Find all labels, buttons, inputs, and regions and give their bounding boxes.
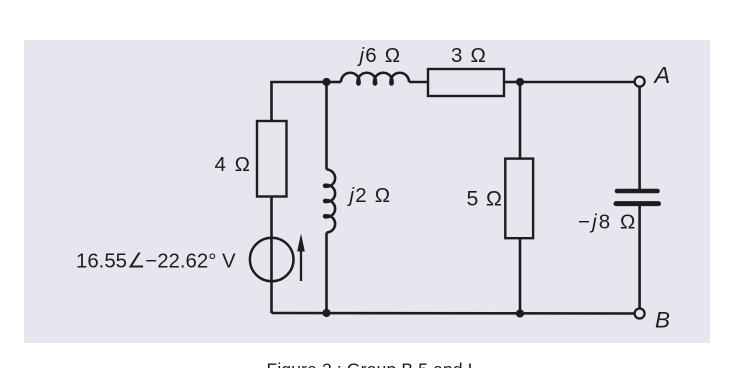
node 4 junction dot (bottom of 5 ohm branch) [516, 309, 524, 317]
svg-text:16.55∠−22.62° V: 16.55∠−22.62° V [76, 251, 236, 273]
capacitor C1 -j8 ohm plates [616, 191, 659, 204]
current arrow of source VS [297, 234, 305, 282]
terminal B circle [635, 309, 645, 319]
wire j2 branch lower [325, 233, 328, 314]
svg-text:j2 Ω: j2 Ω [347, 184, 392, 207]
svg-text:Figure 2 : Group B.5 and L: Figure 2 : Group B.5 and L [267, 360, 478, 368]
wire capacitor C1 to terminal B [638, 206, 641, 309]
resistor R3 5 ohm [505, 159, 533, 239]
inductor L1 j6 ohm [341, 73, 409, 85]
node 3 junction dot (bottom of j2 branch) [322, 309, 330, 317]
wire 5 ohm branch lower [519, 238, 522, 313]
svg-text:5 Ω: 5 Ω [467, 186, 503, 210]
terminal A circle [635, 77, 645, 87]
node 1 junction dot [322, 78, 330, 86]
wire node 2 to terminal A [520, 81, 635, 84]
wire j2 branch upper [325, 82, 328, 170]
wire between resistor R2 and node 2 [504, 81, 520, 84]
inductor L2 j2 ohm [324, 170, 335, 233]
wire terminal A to capacitor C1 [638, 87, 641, 189]
svg-text:j6 Ω: j6 Ω [357, 44, 402, 67]
node 2 junction dot [516, 78, 524, 86]
svg-text:3 Ω: 3 Ω [451, 44, 487, 67]
bottom rail wire [272, 312, 635, 315]
wire top-left horizontal and left vertical drop [272, 82, 327, 121]
wire 5 ohm branch upper [519, 82, 522, 159]
resistor R2 3 ohm [428, 69, 504, 96]
wire resistor R1 through source VS to bottom rail [270, 197, 273, 314]
svg-text:B: B [655, 308, 670, 333]
wire top between node 1 and inductor L1 [327, 81, 342, 84]
svg-text:A: A [653, 62, 671, 88]
resistor R1 4 ohm [257, 121, 287, 197]
svg-text:4 Ω: 4 Ω [215, 153, 252, 176]
wire between inductor L1 and resistor R2 [409, 81, 428, 84]
background panel [24, 40, 710, 343]
svg-text:−j8 Ω: −j8 Ω [578, 211, 637, 234]
voltage source VS circle [250, 238, 294, 282]
